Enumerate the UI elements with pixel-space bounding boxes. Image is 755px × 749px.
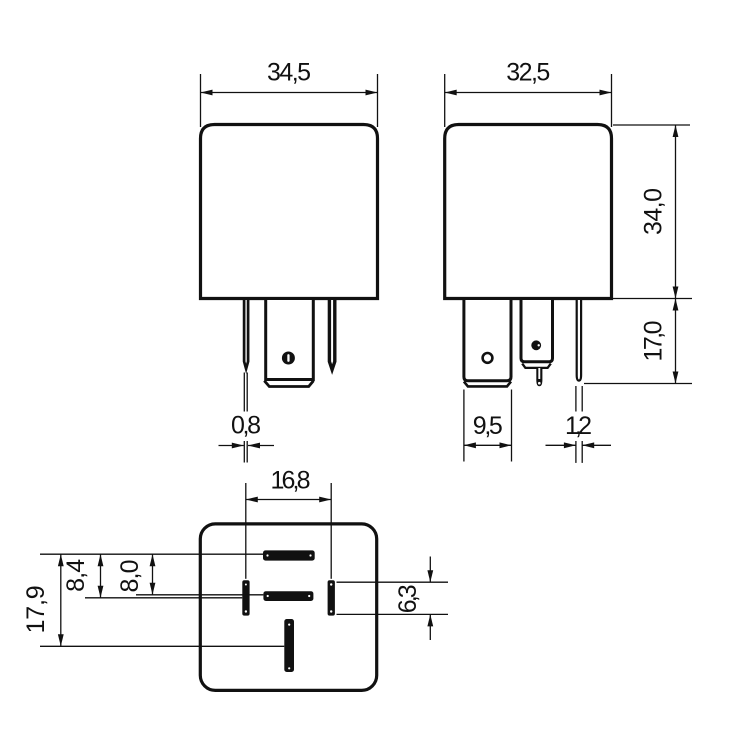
terminal pad right vertical xyxy=(328,580,335,615)
pin blade right (front view) xyxy=(329,300,334,370)
dimension 34,0 xyxy=(613,125,690,299)
svg-text:34,0: 34,0 xyxy=(640,188,668,235)
svg-text:8,0: 8,0 xyxy=(116,560,144,593)
pin wide middle (front view) xyxy=(264,300,313,387)
svg-text:9,5: 9,5 xyxy=(473,412,503,440)
svg-text:17,0: 17,0 xyxy=(640,321,668,362)
thin pin 1.2mm (side view) xyxy=(577,300,581,381)
relay body bottom view xyxy=(200,524,376,691)
relay body front view xyxy=(201,125,378,299)
pin blade left (front view) xyxy=(244,300,248,369)
svg-text:34,5: 34,5 xyxy=(267,59,311,87)
dimension 0,8 xyxy=(219,373,275,463)
svg-text:16,8: 16,8 xyxy=(271,467,311,495)
dimension 17,9 xyxy=(22,554,284,646)
terminal pad top horizontal xyxy=(263,550,315,560)
dimension 16,8 xyxy=(246,467,331,579)
rivet hole middle pin (front view) xyxy=(282,352,295,365)
dimension 1,2 xyxy=(546,386,612,463)
dimension 8,4 xyxy=(62,554,242,598)
svg-text:1,2: 1,2 xyxy=(565,412,592,440)
svg-text:17,9: 17,9 xyxy=(22,585,50,633)
dimension 8,0 xyxy=(116,554,264,595)
dimension 6,3 xyxy=(337,557,449,641)
svg-text:0,8: 0,8 xyxy=(231,412,261,440)
terminal pad left vertical xyxy=(242,580,249,615)
svg-text:8,4: 8,4 xyxy=(62,559,90,592)
center pin with rivet (side view) xyxy=(521,300,553,386)
dimension 32,5 xyxy=(445,59,612,128)
relay body side view xyxy=(445,125,612,299)
dimension 17,0 xyxy=(584,299,692,384)
svg-text:6,3: 6,3 xyxy=(394,584,422,613)
terminal pad bottom vertical xyxy=(284,619,294,672)
svg-text:32,5: 32,5 xyxy=(506,59,550,87)
dimension 9,5 xyxy=(464,390,512,462)
dimension 34,5 xyxy=(201,59,378,128)
terminal pad middle horizontal xyxy=(263,591,313,601)
wide pin with hole (side view) xyxy=(464,300,511,386)
